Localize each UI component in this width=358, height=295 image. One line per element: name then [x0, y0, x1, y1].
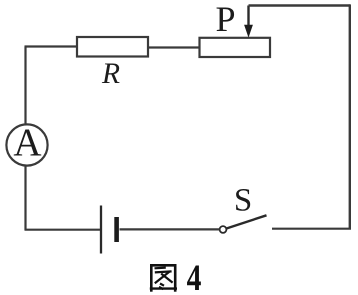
- wire right vertical: [349, 4, 351, 228]
- wire bottom-right horizontal: [272, 228, 351, 230]
- wire top-left vertical: [24, 47, 26, 125]
- wire switch to battery: [120, 228, 220, 230]
- rheostat wiper arrow: [247, 6, 249, 28]
- svg-text:S: S: [234, 183, 252, 219]
- battery short thick plate: [114, 217, 119, 242]
- rheostat P body: [200, 38, 271, 57]
- wire top-left horizontal: [25, 45, 77, 47]
- wire resistor to rheostat: [148, 46, 199, 48]
- ammeter A body: [6, 124, 47, 165]
- battery long plate: [100, 206, 102, 254]
- wire top-right horizontal: [249, 4, 351, 6]
- svg-text:4: 4: [187, 258, 202, 295]
- svg-text:A: A: [13, 121, 41, 164]
- caption number 4: [187, 258, 202, 295]
- wire bottom-left vertical: [24, 166, 26, 230]
- switch S blade: [226, 215, 267, 228]
- resistor R: [77, 37, 148, 57]
- switch S pivot: [220, 226, 227, 233]
- svg-text:R: R: [101, 58, 120, 90]
- wire battery to left: [25, 229, 101, 231]
- caption glyph 图: [150, 264, 177, 292]
- svg-text:P: P: [215, 0, 235, 39]
